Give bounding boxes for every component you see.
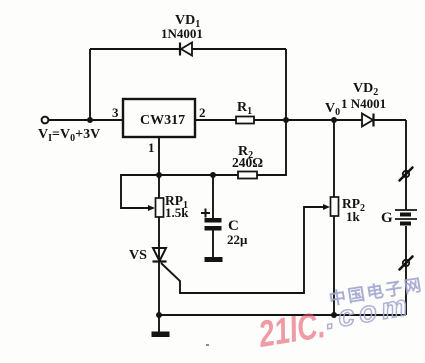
node V0 xyxy=(331,117,337,123)
svg-text:G: G xyxy=(381,210,393,226)
svg-text:2: 2 xyxy=(199,105,206,120)
node junction R1 right xyxy=(283,117,289,123)
diode VD2 xyxy=(362,114,374,127)
node junction input xyxy=(87,117,93,123)
node input terminal circle xyxy=(42,117,49,124)
svg-text:1: 1 xyxy=(148,140,155,155)
ground capacitor xyxy=(205,257,223,262)
wire bottom ground rail xyxy=(159,314,406,316)
wire capacitor C branch xyxy=(212,175,214,257)
wire pin 1 vertical xyxy=(158,137,160,332)
ground main xyxy=(152,332,170,338)
potentiometer RP2 xyxy=(331,197,339,216)
wire input terminal to pin 3 xyxy=(48,119,123,121)
node junction ground rail left xyxy=(156,312,162,318)
svg-text:R1: R1 xyxy=(237,100,252,117)
thyristor VS xyxy=(153,248,167,262)
wire V0 vertical through RP2 xyxy=(333,120,335,315)
node junction C top xyxy=(210,172,216,178)
wire VS gate to RP2 wiper xyxy=(161,207,325,293)
potentiometer RP1 xyxy=(156,198,164,217)
capacitor C xyxy=(205,218,222,223)
node junction pin1 xyxy=(156,172,162,178)
svg-text:3: 3 xyxy=(112,105,119,120)
wire RP1 wiper loop xyxy=(121,175,159,208)
diode VD1 xyxy=(180,43,192,56)
wire top rail input to right corner xyxy=(90,48,286,50)
svg-text:CW317: CW317 xyxy=(140,113,185,128)
svg-text:240Ω: 240Ω xyxy=(232,155,263,170)
wire R2 branch xyxy=(159,120,286,175)
node junction RP2 bottom xyxy=(331,312,337,318)
wire pin 2 to right column xyxy=(195,119,406,121)
svg-text:22μ: 22μ xyxy=(227,232,248,247)
svg-text:1.5k: 1.5k xyxy=(165,205,189,220)
speck artifact xyxy=(206,344,209,346)
svg-text:1k: 1k xyxy=(346,209,361,224)
svg-text:1N4001: 1N4001 xyxy=(161,26,203,41)
connector clip top xyxy=(403,171,409,177)
svg-text:VI=V0+3V: VI=V0+3V xyxy=(38,127,100,144)
svg-text:V0: V0 xyxy=(325,101,340,118)
wire right vertical R1 junction column xyxy=(285,49,287,120)
battery G xyxy=(395,209,417,211)
connector clip bottom xyxy=(403,260,409,266)
op-amp U1 CW317 regulator box xyxy=(123,99,195,137)
resistor R2 xyxy=(238,172,257,179)
wire right battery column xyxy=(405,120,407,315)
svg-text:1 N4001: 1 N4001 xyxy=(341,96,386,111)
wire left vertical from top rail to input node xyxy=(89,49,91,120)
svg-text:VS: VS xyxy=(129,248,147,263)
resistor R1 xyxy=(236,117,254,124)
